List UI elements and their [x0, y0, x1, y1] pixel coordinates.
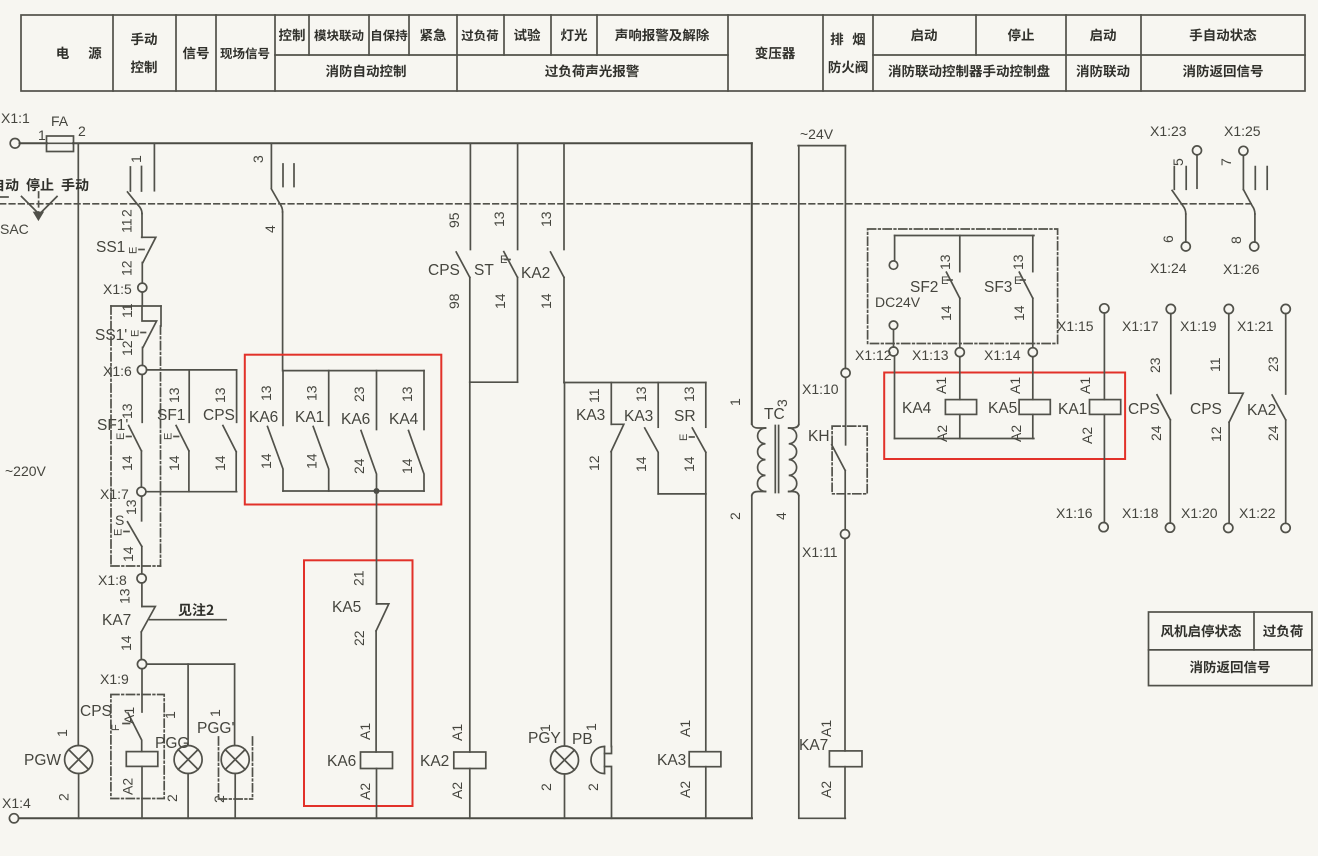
svg-text:12: 12 [586, 455, 602, 471]
note 见注2 [150, 619, 226, 621]
header cell: 过负荷 [461, 29, 498, 41]
switch S (NO, E) [113, 496, 142, 574]
header cell: 控制 [131, 60, 157, 73]
node bar KA3/SR [658, 493, 706, 495]
wire SS1' to X1:6 [142, 347, 144, 365]
svg-text:CPS: CPS [80, 703, 112, 720]
top bus L+ [73, 142, 752, 144]
wire coil KA6 to bus [376, 769, 378, 819]
terminal X1:9 [137, 660, 146, 669]
svg-text:13: 13 [212, 387, 228, 403]
linkage dash-dot right [160, 326, 162, 566]
wire 24V bar to X1:10 [844, 146, 846, 369]
node rail alarm group [564, 382, 706, 384]
coil KA2 [420, 724, 486, 799]
svg-text:CPS: CPS [428, 262, 460, 279]
wire KA2 down to PGY [564, 383, 566, 746]
svg-text:KA2: KA2 [1247, 402, 1276, 419]
svg-text:11: 11 [586, 388, 602, 403]
svg-text:X1:23: X1:23 [1150, 123, 1187, 139]
svg-text:23: 23 [351, 386, 367, 402]
wire X1:1 to fuse [20, 142, 48, 144]
svg-text:13: 13 [491, 211, 507, 227]
node rail X1:7 [146, 491, 237, 493]
svg-text:E: E [130, 330, 142, 337]
linkage dash-dot left [110, 306, 112, 566]
terminal X1:19 [1224, 304, 1233, 313]
terminal X1:12 [889, 347, 898, 356]
svg-text:X1:16: X1:16 [1056, 505, 1093, 521]
wire to SS1 [141, 214, 143, 238]
SAC position arrows [0, 192, 57, 220]
header cell: 启动 [911, 29, 937, 42]
svg-text:11: 11 [119, 303, 135, 318]
svg-text:E: E [163, 433, 175, 440]
terminal X1:16 [1099, 523, 1108, 532]
selector contact SAC 3-4 [250, 143, 294, 233]
terminal X1:22 [1281, 523, 1290, 532]
legend cell: 过负荷(2) [1263, 625, 1303, 638]
svg-text:KA1: KA1 [1058, 401, 1087, 418]
svg-text:14: 14 [120, 546, 136, 562]
svg-text:23: 23 [1265, 356, 1281, 372]
wire KA5 to coil KA6 [375, 631, 377, 752]
svg-text:2: 2 [56, 793, 72, 801]
svg-text:14: 14 [212, 455, 228, 471]
header cell: 过负荷声光报警 [545, 64, 639, 77]
svg-text:KA7: KA7 [102, 612, 131, 629]
red highlight box (KA5/KA6 latch) [304, 560, 413, 806]
svg-text:X1:19: X1:19 [1180, 318, 1217, 334]
header cell: 源 [89, 47, 102, 60]
svg-text:14: 14 [166, 455, 182, 471]
svg-text:KA6: KA6 [341, 411, 370, 428]
svg-text:2: 2 [119, 209, 135, 217]
svg-text:ST: ST [474, 262, 494, 279]
svg-text:1: 1 [727, 398, 743, 406]
button SR 13-14 (NO, E) [674, 383, 706, 494]
svg-text:5: 5 [1170, 158, 1186, 166]
svg-text:KA5: KA5 [988, 400, 1017, 417]
svg-text:TC: TC [764, 406, 785, 423]
thermal contact KH [808, 377, 867, 529]
svg-text:X1:22: X1:22 [1239, 505, 1276, 521]
svg-text:A2: A2 [677, 781, 693, 798]
node bar CPS/ST [470, 381, 518, 383]
header cell: 现场信号 [220, 47, 269, 59]
contact KA7 (NC) [102, 583, 155, 660]
header cell: 烟 [853, 33, 865, 46]
CPS trip unit enclosure (dash-dot) [111, 695, 164, 799]
svg-text:1: 1 [207, 709, 223, 717]
svg-text:14: 14 [118, 635, 134, 651]
svg-text:A2: A2 [449, 782, 465, 799]
svg-text:SF1: SF1 [157, 407, 185, 424]
button SF3 (NO, E) [984, 236, 1033, 348]
switch SF1' (NO, E) [97, 375, 142, 488]
contact KA2 23-24 (NO) [1247, 314, 1286, 524]
terminal X1:17 [1166, 304, 1175, 313]
svg-text:2: 2 [78, 123, 86, 139]
svg-text:SR: SR [674, 408, 696, 425]
svg-text:X1:1: X1:1 [1, 110, 30, 126]
svg-text:PGW: PGW [24, 752, 61, 769]
bottom-right legend table [1149, 612, 1312, 686]
terminal X1:13 [955, 348, 964, 357]
lamp PGW [24, 729, 93, 818]
svg-text:14: 14 [258, 453, 274, 469]
svg-text:X1:9: X1:9 [100, 671, 129, 687]
node rail DC24V [895, 235, 1034, 237]
wire junction down to KA5 [376, 491, 378, 604]
svg-text:SS1: SS1 [96, 239, 125, 256]
SAC positions 自动 停止 手动 [0, 178, 88, 191]
svg-text:13: 13 [633, 386, 649, 402]
button ST 13-14 (NO, E) [474, 143, 518, 382]
contact KA2 13-14 (NO) [521, 143, 564, 382]
svg-text:F: F [110, 724, 122, 731]
svg-text:SAC: SAC [0, 221, 29, 237]
mechanical linkage dashed line [0, 203, 1251, 205]
legend cell: 消防返回信号(2) [1190, 660, 1270, 673]
svg-text:14: 14 [633, 456, 649, 472]
svg-text:CPS: CPS [1190, 401, 1222, 418]
svg-text:KA3: KA3 [657, 752, 686, 769]
svg-text:PGG: PGG [155, 735, 189, 752]
svg-text:A2: A2 [818, 781, 834, 798]
selector contact SAC 5-6 [1160, 155, 1197, 243]
svg-text:13: 13 [1010, 254, 1026, 270]
terminal X1:1 [10, 139, 20, 149]
svg-text:1: 1 [162, 711, 178, 719]
contact KA3 13-14 (NO) [624, 383, 658, 494]
svg-text:SF3: SF3 [984, 279, 1012, 296]
linkage dash-dot bottom [111, 565, 161, 567]
svg-text:13: 13 [123, 499, 139, 515]
wire coil KA3 to bus [705, 767, 707, 819]
terminal X1:11 [841, 530, 850, 539]
fuse FA [47, 136, 74, 152]
header cell: 防火阀 [829, 60, 868, 73]
contact KA6 13-14 (NO) [249, 371, 283, 491]
svg-text:A2: A2 [1079, 427, 1095, 444]
wire 24V to TC secondary [798, 146, 800, 425]
header cell: 启动(2) [1090, 29, 1116, 42]
svg-text:13: 13 [166, 387, 182, 403]
svg-text:KA5: KA5 [332, 599, 361, 616]
header cell: 控制(2) [279, 28, 305, 41]
wire X1:5 to bypass [141, 292, 143, 306]
terminal X1:4 [9, 814, 18, 823]
contact KA1 13-14 (NO) [295, 371, 329, 491]
coil KA5 [988, 357, 1050, 442]
contact KA4 13-14 (NO) [389, 371, 424, 491]
header cell: 变压器 [755, 46, 795, 59]
coil KA1 [1058, 313, 1121, 523]
terminal X1:15 [1100, 304, 1109, 313]
switch SS1' (NC, E-actuator) [95, 303, 157, 356]
svg-text:~24V: ~24V [800, 126, 834, 142]
svg-text:4: 4 [773, 512, 789, 520]
header cell: 停止 [1008, 28, 1034, 41]
svg-text:1: 1 [537, 724, 553, 732]
svg-text:X1:25: X1:25 [1224, 123, 1261, 139]
contact KA3 11-12 (NC) [576, 383, 624, 747]
wire down to coil KA3 [705, 494, 707, 752]
transformer TC [727, 398, 799, 520]
terminal X1:26 [1250, 242, 1259, 251]
svg-text:A1: A1 [818, 720, 834, 737]
junction node [374, 488, 380, 494]
bypass bar over SS1' [111, 305, 161, 307]
wire bus down to TC primary [751, 143, 753, 424]
svg-text:CPS: CPS [203, 407, 235, 424]
svg-text:6: 6 [1160, 235, 1176, 243]
svg-text:X1:21: X1:21 [1237, 318, 1274, 334]
svg-text:13: 13 [119, 403, 135, 419]
terminal X1:5 [138, 283, 147, 292]
svg-text:24: 24 [1265, 425, 1281, 441]
header cell: 消防自动控制 [326, 64, 406, 77]
header cell: 紧急 [420, 28, 446, 41]
svg-text:E: E [941, 275, 948, 287]
wire contact 3-4 down to group rail [282, 212, 284, 371]
svg-text:X1:11: X1:11 [802, 544, 838, 560]
wire TC primary to bus [751, 496, 753, 819]
svg-text:13: 13 [258, 385, 274, 401]
svg-text:E: E [113, 529, 125, 536]
svg-text:SF2: SF2 [910, 279, 938, 296]
header cell: 手动 [131, 32, 157, 45]
svg-text:14: 14 [304, 453, 320, 469]
terminal X1:6 [137, 365, 146, 374]
lamp PGG' (optional, dash-dot marks) [197, 664, 253, 818]
svg-text:12: 12 [119, 260, 135, 276]
red highlight box (interlock contacts) [245, 355, 441, 505]
DC24V source enclosure (dash-dot) [868, 229, 1058, 344]
terminal X1:7 [137, 487, 146, 496]
svg-text:21: 21 [351, 570, 367, 586]
svg-text:~220V: ~220V [5, 463, 47, 479]
svg-text:E: E [678, 434, 690, 441]
svg-text:E: E [128, 247, 140, 254]
switch SS1 (NC, E-actuator) [96, 218, 156, 276]
node rail red group bottom [283, 490, 424, 492]
TC primary winding [752, 424, 766, 428]
svg-text:13: 13 [681, 386, 697, 402]
wire X1:11 to coil KA7 [844, 539, 846, 751]
svg-text:13: 13 [538, 211, 554, 227]
note text 见注2 [178, 603, 213, 616]
svg-text:X1:5: X1:5 [103, 281, 132, 297]
header cell: 自保持 [372, 29, 407, 41]
header cell: 排 [831, 33, 844, 46]
header cell: 声响报警及解除 [615, 28, 709, 41]
contact KA6 23-24 (NO) [341, 371, 377, 491]
lamp PGY [528, 724, 579, 818]
svg-text:4: 4 [262, 225, 278, 233]
svg-text:X1:14: X1:14 [984, 347, 1021, 363]
svg-text:PB: PB [572, 731, 593, 748]
header cell: 试验 [514, 28, 540, 41]
svg-text:13: 13 [304, 385, 320, 401]
svg-text:12: 12 [119, 340, 135, 356]
terminal X1:20 [1224, 523, 1233, 532]
terminal X1:10 [841, 368, 850, 377]
svg-text:X1:26: X1:26 [1223, 261, 1260, 277]
header cell: 消防联动控制器手动控制盘 [888, 64, 1049, 77]
svg-text:1: 1 [128, 155, 144, 163]
header cell: 消防返回信号 [1183, 64, 1263, 77]
bottom bus [19, 817, 752, 819]
svg-text:1: 1 [583, 723, 599, 731]
svg-text:A1: A1 [449, 724, 465, 741]
svg-text:2: 2 [727, 512, 743, 520]
svg-text:11: 11 [119, 218, 135, 233]
svg-text:22: 22 [351, 630, 367, 646]
terminal X1:21 [1281, 304, 1290, 313]
coil KA6 [327, 723, 393, 800]
terminal X1:18 [1165, 523, 1174, 532]
svg-text:KA4: KA4 [389, 411, 419, 428]
bell PB [572, 723, 612, 818]
svg-text:X1:12: X1:12 [855, 347, 892, 363]
wire X1:9 down to CPS trip F [141, 669, 143, 712]
svg-text:2: 2 [538, 783, 554, 791]
svg-text:A1: A1 [677, 720, 693, 737]
lamp PGG [155, 664, 202, 818]
svg-text:14: 14 [492, 293, 508, 309]
svg-text:X1:10: X1:10 [802, 381, 839, 397]
header cell: 消防联动 [1076, 64, 1129, 77]
terminal X1:14 [1028, 348, 1037, 357]
contact CPS 23-24 (NO) [1128, 314, 1171, 523]
svg-text:X1:8: X1:8 [98, 572, 127, 588]
svg-text:23: 23 [1147, 357, 1163, 373]
contact CPS 95-98 (NO) [428, 143, 470, 382]
svg-text:KA3: KA3 [576, 407, 605, 424]
svg-text:X1:18: X1:18 [1122, 505, 1159, 521]
24V side bottom rail [799, 496, 846, 819]
header cell: 信号 [183, 46, 209, 59]
svg-text:1: 1 [54, 729, 70, 737]
legend cell: 风机启停状态 [1161, 624, 1241, 637]
header cell: 手自动状态 [1190, 28, 1257, 41]
coil KA3 [657, 720, 721, 798]
wire coil KA2 to bus [469, 769, 471, 819]
selector contact SAC 7-8 [1218, 155, 1267, 244]
svg-text:95: 95 [446, 212, 462, 228]
svg-text:A2: A2 [1008, 425, 1024, 442]
svg-text:7: 7 [1218, 158, 1234, 166]
svg-text:1: 1 [38, 127, 46, 143]
svg-text:A2: A2 [120, 778, 136, 795]
svg-text:14: 14 [1011, 305, 1027, 321]
svg-text:A2: A2 [934, 425, 950, 442]
svg-text:E: E [1014, 275, 1021, 287]
svg-text:12: 12 [1208, 426, 1224, 442]
svg-text:11: 11 [1207, 357, 1223, 372]
svg-text:2: 2 [585, 783, 601, 791]
svg-text:8: 8 [1228, 236, 1244, 244]
wire coil KA7 to rail [844, 767, 846, 819]
trip element F blade [128, 713, 142, 752]
wire X1:12 to A2 rail [894, 356, 896, 439]
svg-text:A1: A1 [121, 707, 137, 724]
svg-text:X1:20: X1:20 [1181, 505, 1218, 521]
svg-text:E: E [115, 433, 127, 440]
svg-text:13: 13 [399, 386, 415, 402]
wire SS1 to X1:5 [141, 263, 143, 284]
svg-text:13: 13 [937, 254, 953, 270]
DC24V source terminals [894, 236, 896, 261]
node rail A2 [895, 438, 1034, 440]
wire down to coil KA2 [469, 382, 471, 752]
svg-text:KA3: KA3 [624, 408, 653, 425]
svg-text:KA4: KA4 [902, 400, 932, 417]
svg-text:DC24V: DC24V [875, 294, 921, 310]
svg-text:14: 14 [538, 293, 554, 309]
svg-text:13: 13 [117, 588, 133, 604]
wire F to bottom bus [141, 766, 143, 818]
svg-text:KA1: KA1 [295, 409, 324, 426]
svg-text:X1:24: X1:24 [1150, 260, 1187, 276]
svg-text:3: 3 [250, 155, 266, 163]
selector contact SAC 1-2 [119, 143, 155, 217]
header cell: 电 [57, 47, 69, 59]
switch SF1 (NO, E) [157, 370, 189, 492]
coil KA4 [902, 357, 977, 442]
svg-text:KA2: KA2 [521, 265, 550, 282]
terminal X1:24 [1181, 242, 1190, 251]
button SF2 (NO, E) [910, 236, 960, 348]
24V bar [798, 145, 845, 147]
trip element F body [126, 752, 158, 767]
svg-text:A1: A1 [357, 723, 373, 740]
svg-text:14: 14 [119, 455, 135, 471]
svg-text:14: 14 [399, 458, 415, 474]
TC core [775, 426, 778, 493]
header legend table frame [21, 15, 1305, 91]
svg-text:PGG': PGG' [197, 720, 234, 737]
svg-text:KA2: KA2 [420, 753, 449, 770]
svg-text:A2: A2 [357, 783, 373, 800]
svg-text:24: 24 [1148, 425, 1164, 441]
svg-text:CPS: CPS [1128, 401, 1160, 418]
contact CPS aux (NO) [203, 370, 237, 492]
svg-text:FA: FA [51, 113, 69, 129]
contact CPS 11-12 (NC) [1190, 314, 1243, 524]
contact KA5 21-22 (NC) [332, 570, 389, 646]
node rail X1:6 [147, 369, 237, 371]
svg-text:X1:17: X1:17 [1122, 318, 1159, 334]
header cell: 灯光 [561, 29, 587, 42]
svg-text:X1:4: X1:4 [2, 795, 31, 811]
terminal X1:8 [137, 574, 146, 583]
svg-text:KA7: KA7 [799, 737, 828, 754]
svg-text:3: 3 [774, 399, 790, 407]
svg-text:KA6: KA6 [327, 753, 356, 770]
svg-text:KH: KH [808, 428, 830, 445]
TC secondary winding [789, 425, 799, 429]
red highlight box (fire relays) [884, 373, 1125, 460]
svg-text:X1:13: X1:13 [912, 347, 949, 363]
svg-text:X1:15: X1:15 [1057, 318, 1094, 334]
svg-text:A1: A1 [1077, 377, 1093, 394]
svg-text:A1: A1 [933, 377, 949, 394]
left vertical feeder to PGW [77, 143, 79, 745]
svg-text:98: 98 [446, 293, 462, 309]
